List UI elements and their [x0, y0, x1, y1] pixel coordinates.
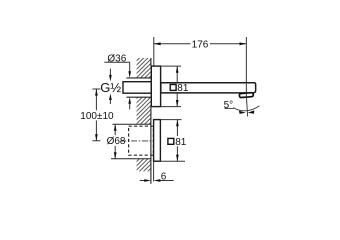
- upper escutcheon plate (edge view): [151, 66, 160, 107]
- dimension square 81 lower: arrowheads: [176, 120, 179, 127]
- concealed body (hidden, dashed): [129, 126, 154, 155]
- dimension square 81 upper: square symbol: [170, 85, 176, 91]
- svg-text:6: 6: [161, 171, 167, 182]
- dimension 176: extension line right through spout: [245, 37, 247, 92]
- dimension 6: extension line (plate front): [153, 161, 155, 181]
- dimension 176: right arrowhead: [240, 42, 247, 45]
- dimension square 81 lower: dimension line: [176, 120, 178, 162]
- svg-text:81: 81: [177, 83, 189, 94]
- dimension diameter 36: upper arrowhead: [128, 71, 131, 78]
- dimension diameter 68: arrowheads: [114, 124, 117, 131]
- spout body: [161, 83, 256, 93]
- wall hatching middle segment: [137, 97, 151, 124]
- dimension diameter 36: lower arrow: [129, 102, 131, 109]
- dimension square 81 lower: extension lines: [160, 120, 185, 162]
- wall surface line: [150, 58, 152, 184]
- supply pipe with G1/2 thread: [123, 82, 151, 94]
- dimension 100 plus/minus 10: arrowheads: [95, 89, 98, 96]
- dimension 100 plus/minus 10: dimension line: [95, 89, 97, 141]
- svg-text:G½: G½: [100, 80, 121, 95]
- wall hole edge lines for concealed body (diameter 68): [111, 124, 151, 159]
- angle 5 deg: arc: [233, 106, 259, 111]
- wall hatching lower segment: [137, 159, 151, 172]
- centerline of concealed body: [120, 140, 153, 142]
- dimension 6: left arrow: [140, 180, 145, 182]
- dimension square 81 lower: square symbol: [168, 138, 174, 144]
- svg-text:176: 176: [192, 39, 209, 50]
- dimension 100 plus/minus 10: end ticks: [92, 89, 100, 141]
- angle 5 deg: left arc arrowhead: [239, 111, 246, 114]
- svg-text:100±10: 100±10: [80, 111, 114, 122]
- dimension square 81 upper: dimension line: [176, 66, 178, 107]
- angle 5 deg: leader underline: [225, 107, 234, 109]
- thread G 1/2: upper arrow: [109, 69, 111, 76]
- dimension diameter 36: leader line: [104, 62, 129, 72]
- dimension 176: left arrowhead: [154, 42, 161, 45]
- dimension 176: extension line left: [153, 37, 155, 66]
- angle 5 deg: right arc arrowhead: [248, 110, 255, 113]
- lower cover plate (edge view): [154, 120, 161, 162]
- wall hatching upper segment: [137, 58, 151, 78]
- dimension 176: dimension line: [154, 43, 247, 45]
- svg-text:81: 81: [175, 137, 187, 148]
- svg-text:5°: 5°: [224, 100, 234, 111]
- spray direction line tilted 5 deg: [246, 92, 248, 117]
- dimension square 81 upper: arrowheads: [176, 66, 179, 73]
- svg-text:Ø68: Ø68: [107, 136, 126, 147]
- svg-text:Ø36: Ø36: [107, 53, 126, 64]
- dimension 6: right arrow with tail: [159, 180, 173, 182]
- pipe sleeve hole edge lines (diameter 36): [126, 78, 150, 97]
- dimension diameter 68: dimension line: [114, 124, 116, 159]
- thread G 1/2: lower arrow: [109, 100, 111, 105]
- aerator / mousseur (tilted 5 deg): [239, 93, 253, 98]
- dimension square 81 upper: extension lines: [161, 66, 181, 107]
